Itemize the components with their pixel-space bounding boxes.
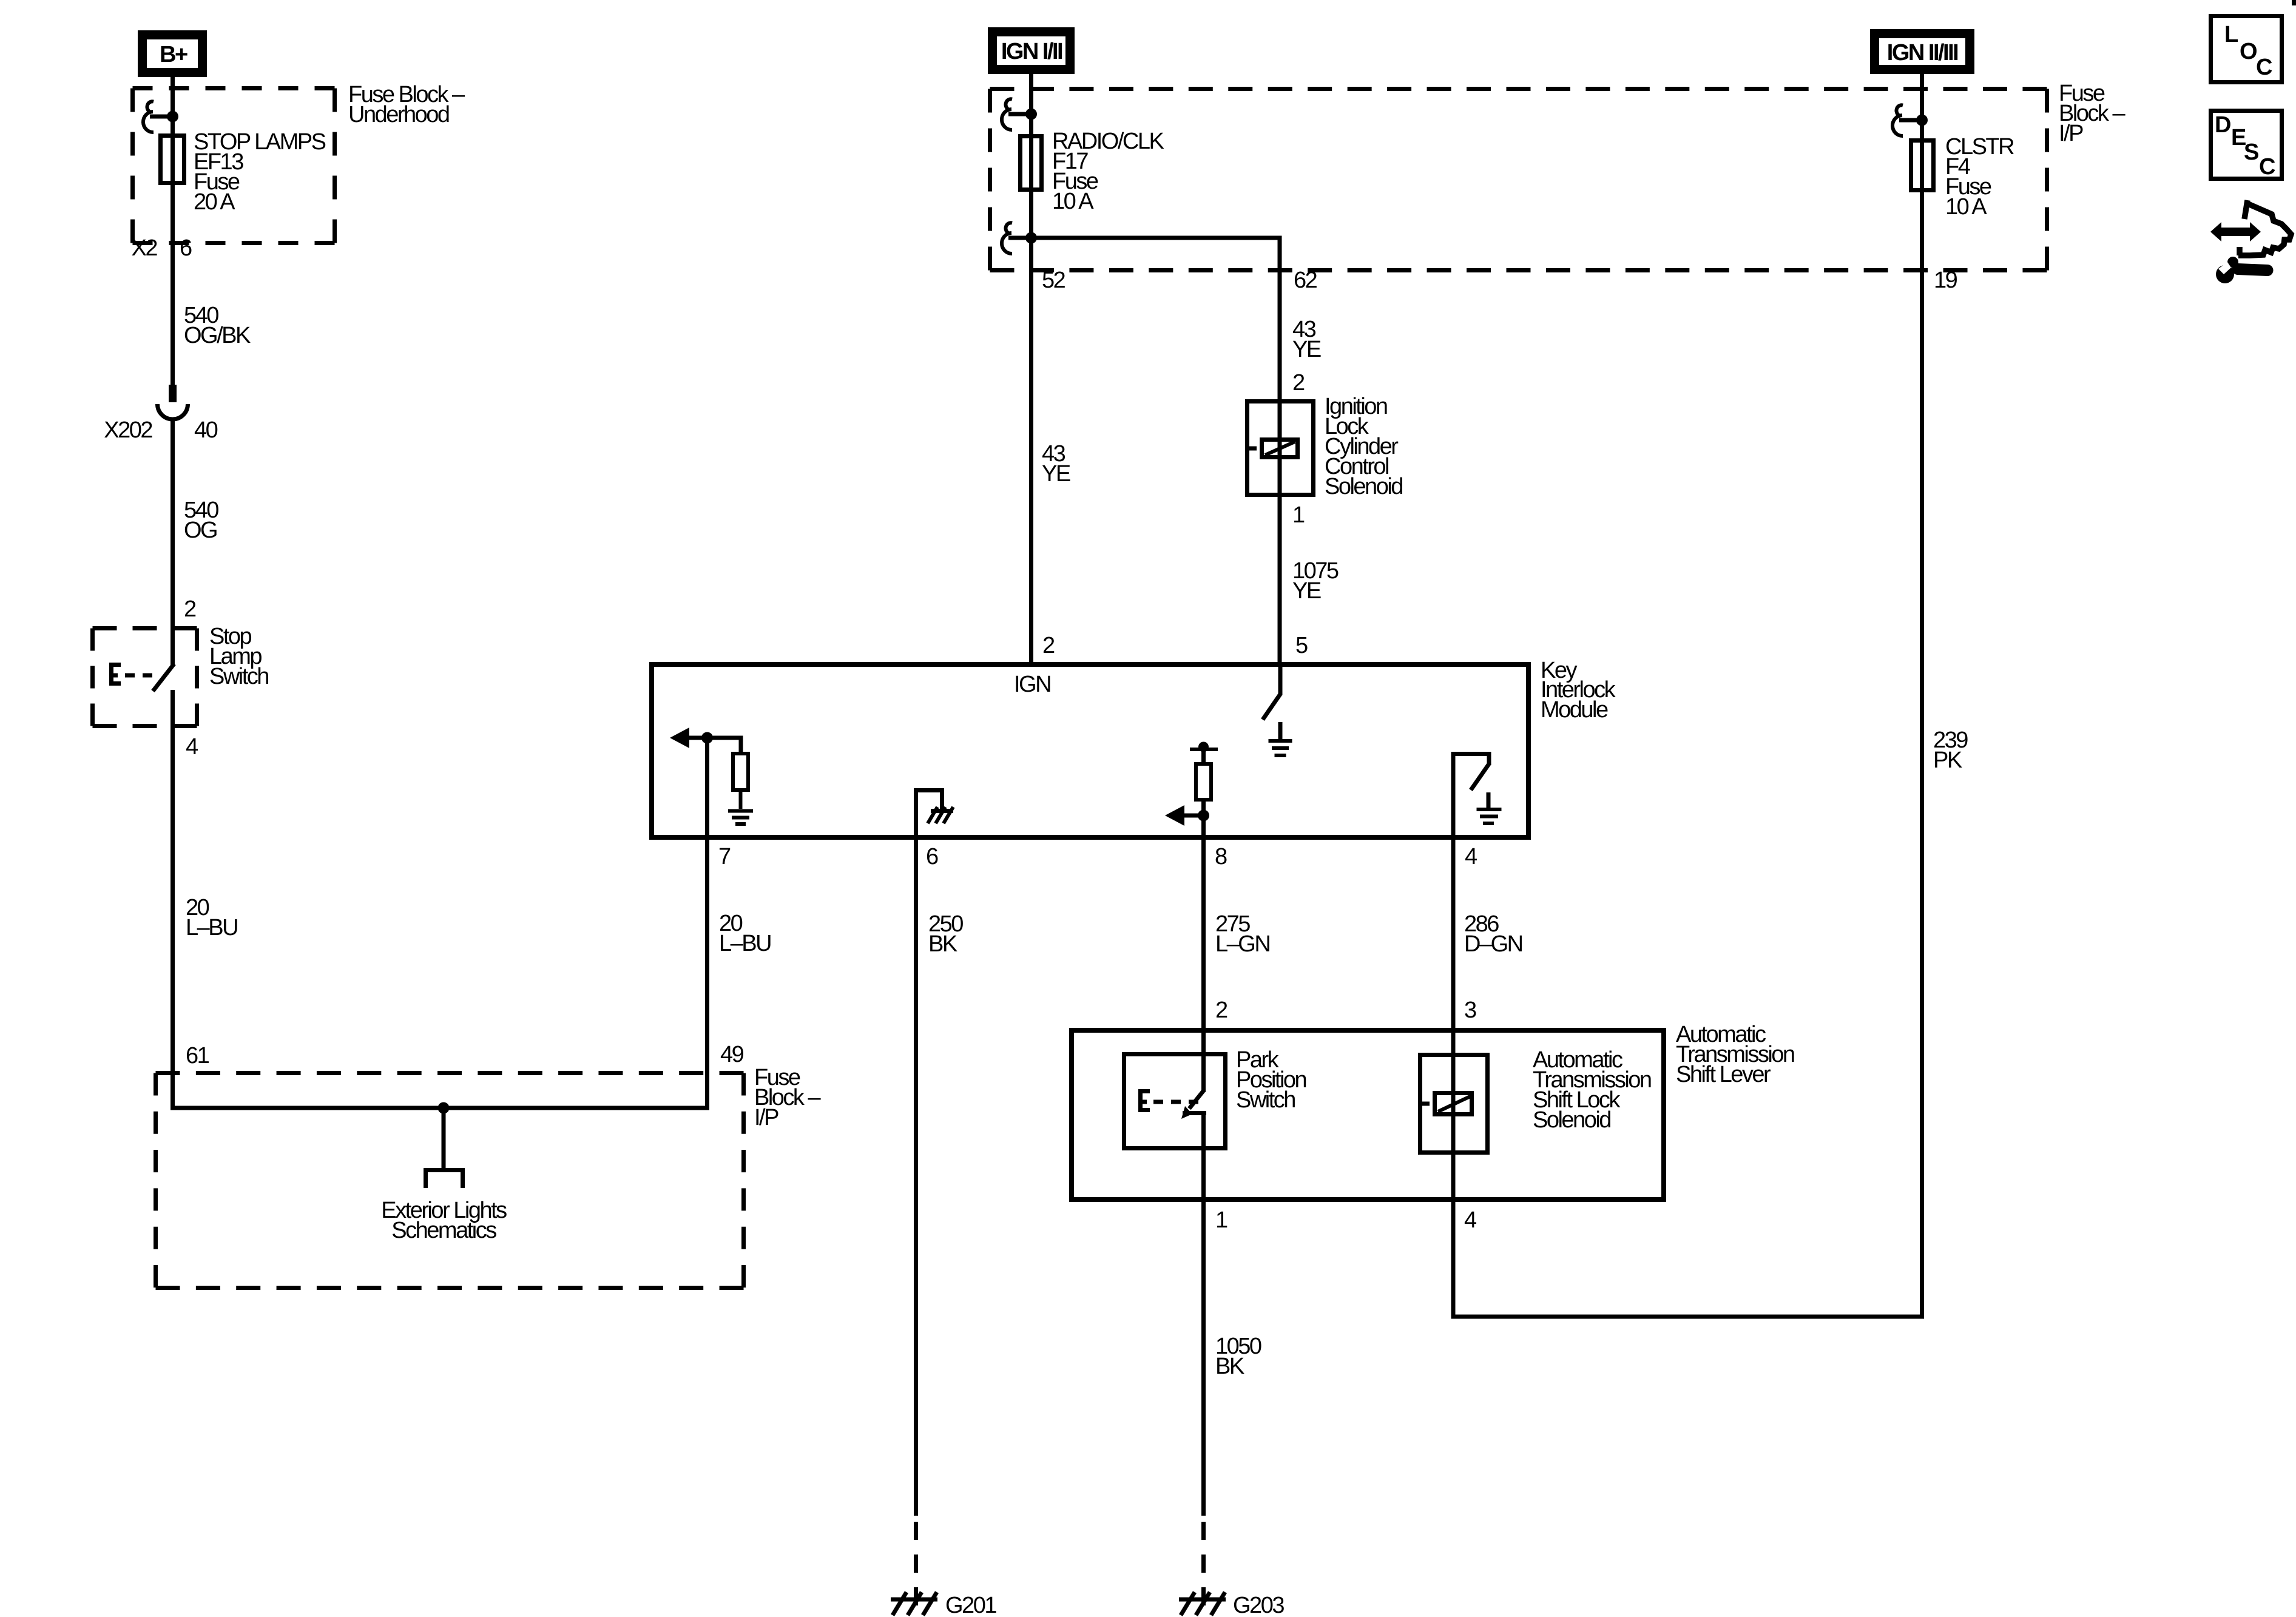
module internal switch to ground (pin 5) bbox=[1263, 666, 1292, 755]
svg-text:OG/BK: OG/BK bbox=[184, 323, 251, 348]
wire IGN I/II feed down to module pin 2 bbox=[1029, 69, 1033, 666]
svg-text:BK: BK bbox=[1215, 1354, 1244, 1379]
svg-text:C: C bbox=[2256, 55, 2272, 80]
inline connector X202 (female cup) bbox=[158, 404, 188, 419]
svg-text:7: 7 bbox=[718, 844, 731, 869]
fuse block underhood dashed box bbox=[133, 89, 335, 243]
bus tap clamp at B+ feed bbox=[143, 101, 172, 132]
service tool icon: wrench bbox=[2216, 257, 2267, 283]
svg-text:Underhood: Underhood bbox=[348, 102, 449, 127]
wire module pin 4 to shift lock solenoid bbox=[1451, 837, 1456, 1202]
wire label 43 YE (pin 52 wire) bbox=[1042, 441, 1070, 487]
wire park switch to pin 1 bbox=[1201, 1113, 1206, 1516]
dashed lead to G201 bbox=[914, 1522, 918, 1608]
svg-text:C: C bbox=[2259, 154, 2275, 180]
svg-text:I/P: I/P bbox=[2059, 121, 2083, 146]
svg-text:2: 2 bbox=[1042, 633, 1055, 658]
module internal switch to ground (pin 4) bbox=[1453, 754, 1502, 838]
svg-text:Module: Module bbox=[1541, 697, 1608, 723]
svg-text:YE: YE bbox=[1042, 461, 1070, 487]
label Automatic Transmission Shift Lock Solenoid bbox=[1533, 1047, 1651, 1133]
wire F17 to ignition lock solenoid bbox=[1031, 238, 1280, 666]
label Stop Lamp Switch bbox=[209, 624, 268, 689]
wire below stop lamp switch bbox=[171, 690, 175, 1110]
solenoid coil symbol (shift lock) bbox=[1420, 1093, 1472, 1115]
svg-text:I/P: I/P bbox=[754, 1105, 778, 1130]
svg-text:61: 61 bbox=[186, 1043, 209, 1068]
wire label 43 YE (pin 62 wire) bbox=[1292, 317, 1321, 362]
svg-text:3: 3 bbox=[1464, 998, 1476, 1023]
svg-text:2: 2 bbox=[184, 596, 196, 622]
wire module pin 8 internal bbox=[1201, 815, 1206, 837]
svg-text:YE: YE bbox=[1292, 337, 1321, 362]
switch linkage dashes (park switch) bbox=[1153, 1100, 1199, 1104]
bus tap clamp at F4 input bbox=[1893, 105, 1922, 136]
fuse F4 CLSTR 10 A bbox=[1911, 141, 1934, 191]
svg-text:52: 52 bbox=[1042, 268, 1065, 293]
label Fuse Block - I/P (top right) bbox=[2059, 81, 2125, 146]
svg-text:1: 1 bbox=[1292, 502, 1305, 528]
svg-text:40: 40 bbox=[194, 417, 218, 443]
svg-text:Switch: Switch bbox=[209, 664, 268, 689]
fuse F17 RADIO/CLK 10 A bbox=[1021, 137, 1042, 190]
label Fuse Block - I/P (bottom) bbox=[754, 1065, 821, 1130]
internal arrow (pin 8) bbox=[1165, 805, 1203, 826]
solenoid coil symbol (ignition lock) bbox=[1248, 440, 1298, 457]
wire label 540 OG/BK bbox=[184, 303, 251, 348]
ground G201 bbox=[891, 1592, 937, 1615]
svg-text:Solenoid: Solenoid bbox=[1325, 474, 1402, 499]
svg-text:IGN II/III: IGN II/III bbox=[1887, 40, 1958, 66]
junction dot bbox=[167, 111, 178, 123]
stop lamp switch blade bbox=[153, 664, 174, 691]
wire module pin 6 to G201 bbox=[914, 837, 918, 1516]
svg-text:D–GN: D–GN bbox=[1464, 931, 1522, 957]
junction dot bbox=[1025, 109, 1037, 120]
shift lock solenoid box bbox=[1420, 1055, 1488, 1153]
svg-text:6: 6 bbox=[926, 844, 938, 869]
svg-text:BK: BK bbox=[928, 931, 957, 957]
svg-text:G203: G203 bbox=[1233, 1593, 1284, 1617]
svg-text:4: 4 bbox=[1465, 844, 1477, 869]
svg-text:Switch: Switch bbox=[1236, 1087, 1295, 1113]
svg-text:PK: PK bbox=[1933, 748, 1962, 773]
svg-text:Solenoid: Solenoid bbox=[1533, 1107, 1610, 1133]
svg-text:2: 2 bbox=[1215, 998, 1227, 1023]
svg-text:L–BU: L–BU bbox=[186, 915, 237, 940]
label CLSTR F4 Fuse 10 A bbox=[1945, 134, 2014, 220]
wire module pin 8 to park position switch bbox=[1201, 837, 1206, 1092]
wire label 286 D-GN bbox=[1464, 911, 1522, 957]
fuse block I/P dashed box (bottom left) bbox=[156, 1073, 744, 1288]
wire label 1075 YE bbox=[1292, 558, 1339, 604]
key interlock module box bbox=[652, 664, 1528, 837]
stub to exterior lights connector bbox=[442, 1108, 446, 1168]
internal resistor (pin 8) bbox=[1201, 749, 1206, 764]
bus tap clamp at F17 output bbox=[1002, 223, 1031, 254]
park switch contact bar bbox=[1183, 1111, 1206, 1115]
wire label 275 L-GN bbox=[1215, 911, 1269, 957]
svg-text:D: D bbox=[2215, 112, 2230, 138]
dashed lead to G203 bbox=[1201, 1522, 1206, 1608]
wire X202 to stop lamp switch bbox=[171, 419, 175, 666]
power feed box IGN I/II bbox=[993, 32, 1070, 70]
junction dot bbox=[1025, 232, 1037, 244]
wire fuse block I/P to module pin 7 bbox=[705, 836, 709, 1110]
stop lamp switch actuator E bbox=[109, 663, 121, 686]
power feed box IGN II/III bbox=[1875, 34, 1970, 70]
svg-text:L: L bbox=[2224, 22, 2238, 47]
svg-text:IGN I/II: IGN I/II bbox=[1001, 39, 1062, 64]
svg-text:B+: B+ bbox=[160, 42, 187, 67]
fuse block I/P dashed box (top) bbox=[990, 89, 2047, 271]
label Park Position Switch bbox=[1236, 1047, 1306, 1113]
resistor (pin 7) bbox=[733, 754, 748, 790]
svg-text:6: 6 bbox=[180, 235, 192, 261]
wire label 20 L-BU (left) bbox=[186, 895, 237, 940]
junction dot bbox=[1916, 115, 1928, 126]
svg-text:OG: OG bbox=[184, 518, 217, 543]
connector label X2 / cavity 6 bbox=[132, 235, 192, 261]
svg-text:G201: G201 bbox=[945, 1593, 996, 1617]
label STOP LAMPS EF13 Fuse 20 A bbox=[194, 129, 326, 215]
bus tap clamp at F17 input bbox=[1002, 99, 1031, 130]
page corner mark bbox=[2292, 0, 2296, 5]
svg-text:10 A: 10 A bbox=[1945, 194, 1987, 220]
svg-text:4: 4 bbox=[1464, 1207, 1477, 1233]
park switch actuator E bbox=[1138, 1089, 1150, 1112]
svg-text:1: 1 bbox=[1215, 1207, 1227, 1233]
ground (pin 7 resistor) bbox=[728, 811, 753, 825]
fuse EF13 STOP LAMPS 20 A bbox=[161, 136, 184, 183]
ground G203 bbox=[1179, 1592, 1226, 1615]
module internal output arrow (pin 7) bbox=[670, 727, 741, 748]
svg-text:L–BU: L–BU bbox=[719, 931, 771, 956]
label RADIO/CLK F17 Fuse 10 A bbox=[1052, 129, 1164, 214]
ignition lock cylinder control solenoid box bbox=[1248, 402, 1314, 495]
wire module pin 7 internal bbox=[705, 738, 709, 837]
internal resistor branch (pin 7) bbox=[739, 736, 743, 754]
svg-text:2: 2 bbox=[1292, 370, 1305, 396]
connector label X202 / cavity 40 bbox=[104, 417, 217, 443]
inline connector X202 (male blade) bbox=[169, 385, 177, 402]
module internal chassis ground (pin 6) bbox=[916, 791, 954, 838]
label Fuse Block - Underhood bbox=[348, 82, 465, 127]
module internal tap bar (pin 8) bbox=[1190, 742, 1218, 752]
svg-text:5: 5 bbox=[1295, 633, 1308, 658]
svg-text:X2: X2 bbox=[132, 235, 158, 261]
svg-text:Shift Lever: Shift Lever bbox=[1676, 1062, 1771, 1087]
power feed box B+ bbox=[143, 35, 203, 73]
wire label 239 PK bbox=[1933, 727, 1968, 773]
svg-text:X202: X202 bbox=[104, 417, 152, 443]
wire IGN II/III feed down and around to shift lever pin 4 bbox=[1453, 69, 1922, 1317]
label Key Interlock Module bbox=[1541, 658, 1616, 723]
park position switch box bbox=[1124, 1055, 1226, 1149]
legend box DESC bbox=[2211, 111, 2282, 180]
wire label 1050 BK bbox=[1215, 1334, 1261, 1379]
label Automatic Transmission Shift Lever bbox=[1676, 1022, 1794, 1087]
wire B+ feed down through EF13 fuse to X202 bbox=[171, 72, 175, 385]
svg-text:YE: YE bbox=[1292, 578, 1321, 604]
park switch blade with arrow bbox=[1181, 1090, 1204, 1119]
svg-text:62: 62 bbox=[1294, 268, 1317, 293]
svg-text:49: 49 bbox=[720, 1042, 744, 1067]
svg-text:8: 8 bbox=[1215, 844, 1227, 869]
label Exterior Lights Schematics bbox=[381, 1198, 507, 1243]
wire label 20 L-BU (right) bbox=[719, 911, 771, 956]
svg-text:L–GN: L–GN bbox=[1215, 931, 1269, 957]
wire label 540 OG bbox=[184, 498, 218, 543]
legend box LOC bbox=[2211, 16, 2282, 83]
svg-text:S: S bbox=[2244, 140, 2258, 165]
svg-text:O: O bbox=[2240, 39, 2257, 64]
switch linkage dashes bbox=[125, 673, 157, 678]
label Ignition Lock Cylinder Control Solenoid bbox=[1325, 394, 1402, 499]
svg-text:19: 19 bbox=[1934, 268, 1957, 293]
wire bus inside fuse block I/P bbox=[171, 1106, 709, 1110]
stop lamp switch dashed box bbox=[93, 629, 197, 726]
wire label 250 BK bbox=[928, 911, 963, 957]
off-page connector fork (exterior lights) bbox=[426, 1170, 463, 1189]
service tool icon: jagged outline bbox=[2238, 200, 2291, 255]
svg-text:Schematics: Schematics bbox=[391, 1218, 496, 1243]
svg-text:4: 4 bbox=[186, 734, 198, 760]
automatic transmission shift lever box bbox=[1072, 1030, 1664, 1200]
svg-text:20 A: 20 A bbox=[194, 189, 235, 215]
service tool icon: double arrow bbox=[2210, 222, 2261, 241]
junction dot bbox=[1198, 810, 1209, 822]
junction dot bbox=[701, 732, 713, 744]
svg-text:10 A: 10 A bbox=[1052, 189, 1094, 214]
junction dot bbox=[438, 1102, 450, 1114]
svg-text:IGN: IGN bbox=[1014, 672, 1050, 697]
